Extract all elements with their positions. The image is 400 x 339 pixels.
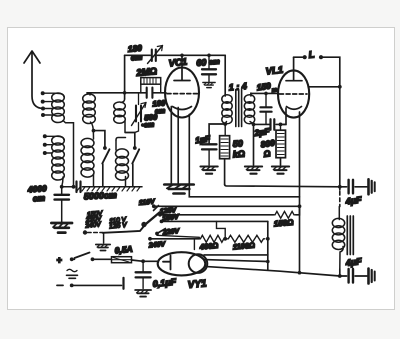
svg-text:cm: cm — [209, 57, 221, 67]
transformer T1 core — [236, 90, 242, 127]
node VL1 cathode — [279, 123, 283, 127]
node taps of coil L1a — [41, 91, 45, 117]
wire secondary top to VL1 grid — [251, 92, 279, 94]
svg-text:kΩ: kΩ — [232, 149, 245, 160]
node screen tap — [338, 85, 342, 89]
wire L to right rail — [323, 57, 340, 190]
svg-text:4μF: 4μF — [344, 195, 363, 207]
wire plate to transformer — [224, 55, 226, 96]
VL1 cathode — [287, 107, 302, 110]
resistor 800 Ohm — [276, 124, 286, 165]
symbol AC — [67, 269, 77, 272]
node 150 tap — [264, 92, 268, 96]
connector bar minus — [122, 278, 124, 289]
wire B+ rail — [225, 184, 340, 187]
choke T2 core — [347, 216, 353, 255]
fuse 0.5A — [112, 257, 132, 263]
wire primary bottom to 1uF — [209, 124, 225, 143]
node 125V — [158, 213, 162, 217]
svg-text:50: 50 — [232, 138, 243, 149]
capacitor 4000cm — [55, 187, 70, 222]
chassis bars upper — [369, 179, 375, 194]
VC1 legs — [171, 107, 178, 185]
switch mains — [75, 253, 90, 259]
switch S2 — [133, 146, 137, 150]
node L2 tap — [92, 129, 96, 133]
node heater rail bottom — [298, 271, 302, 275]
switch S1 — [103, 146, 107, 150]
terminal L left — [303, 55, 307, 59]
VL1 heater leg — [299, 112, 301, 273]
svg-text:60: 60 — [196, 57, 207, 68]
node on upper — [266, 260, 270, 264]
ground selector — [103, 233, 105, 243]
resistor 2MOhm grid leak — [141, 78, 161, 93]
wire row 110V — [154, 205, 300, 207]
terminal L right — [319, 55, 323, 59]
terminal minus — [57, 284, 63, 286]
tube VY1 envelope — [158, 252, 206, 275]
wire step to 400/1100 junction — [217, 221, 226, 238]
resistor 150 Ohm — [274, 211, 296, 218]
capacitor 0.1uF — [136, 261, 151, 288]
wire VY1 output lower — [205, 266, 340, 276]
VL1 cathode leg — [282, 108, 287, 124]
wire row 240V — [150, 238, 199, 240]
tube VC1 — [165, 68, 199, 118]
node 110V — [152, 204, 156, 208]
node VC1 anode on top wire — [180, 54, 184, 58]
wire dashed to output choke — [339, 192, 341, 207]
wire plus to fuse — [73, 258, 111, 260]
wire box right edge — [267, 221, 269, 269]
svg-text:L: L — [308, 49, 315, 61]
content groups appended below — [24, 51, 166, 233]
svg-text:2μF: 2μF — [253, 126, 271, 138]
capacitor 2uF — [271, 119, 275, 130]
chassis bars lower — [369, 269, 375, 284]
ground 60cm — [203, 83, 215, 88]
coil L1a antenna coupling upper — [52, 93, 74, 187]
VY1 cathode bar — [163, 256, 171, 270]
svg-text:•cm: •cm — [141, 120, 155, 130]
VC1 cathode — [173, 107, 192, 110]
capacitor 1uF — [202, 144, 217, 165]
node T1 secondary bottom — [252, 123, 256, 127]
ground VC1 cathode — [165, 185, 194, 194]
svg-text:VY1: VY1 — [187, 278, 207, 291]
antenna — [24, 51, 43, 109]
VC1 heater leg — [189, 115, 299, 197]
svg-text:cm: cm — [130, 53, 142, 63]
node 150V — [160, 220, 164, 224]
transformer T1 primary — [222, 95, 232, 124]
svg-text:VC1: VC1 — [168, 57, 188, 70]
wire box bottom — [204, 254, 268, 256]
capacitor 150 — [260, 93, 271, 124]
wire taps to coil L1b — [45, 136, 57, 153]
coil L2b tuning lower — [81, 138, 94, 186]
wire VY1 filament upper — [205, 260, 268, 262]
capacitor 5000cm — [62, 182, 142, 193]
wire tank top — [87, 92, 141, 94]
choke T2 coil — [332, 207, 344, 270]
wire L2 tap to switch S1 — [94, 131, 105, 147]
node antenna drop junction — [72, 185, 76, 189]
node 60cm tap — [207, 54, 211, 58]
svg-text:4μF: 4μF — [344, 256, 363, 268]
node 1100 right — [266, 237, 270, 241]
svg-text:150Ω: 150Ω — [273, 218, 294, 229]
svg-text:150: 150 — [256, 81, 272, 93]
node selector feed — [83, 230, 87, 234]
VC1 grid (dashed) — [167, 93, 198, 95]
svg-text:cm: cm — [32, 193, 45, 204]
wire fuse to VY1 — [132, 260, 159, 261]
wire VL1 anode to L terminal — [294, 56, 303, 58]
ground 0.1uF — [135, 290, 151, 297]
node 400/1100 junction — [223, 237, 227, 241]
tube VL1 — [278, 70, 309, 117]
svg-text:1100Ω: 1100Ω — [232, 241, 255, 252]
svg-text:1 : 4: 1 : 4 — [228, 81, 247, 93]
wire secondary bottom to ground — [253, 124, 255, 165]
wire VL1 screen tap — [309, 86, 340, 88]
VC1 anode — [174, 55, 190, 80]
ground 800 — [272, 167, 289, 174]
wire VY1 anode stub — [193, 239, 195, 250]
svg-text:240V: 240V — [148, 241, 167, 250]
node 240V — [148, 237, 152, 241]
capacitor 60cm — [202, 55, 216, 81]
transformer T1 secondary — [244, 93, 254, 124]
resistor 1100 Ohm — [227, 235, 264, 242]
capacitor 100cm grid — [141, 88, 166, 98]
node output bottom — [338, 274, 342, 278]
svg-text:240V: 240V — [84, 221, 102, 230]
wire 150 Ohm to heater rail — [296, 206, 300, 215]
wire vertical from 180cm corner — [124, 55, 126, 99]
coil L3b lower — [116, 138, 129, 187]
VY1 inner anode cylinder — [189, 254, 208, 273]
resistor 50k — [220, 124, 230, 184]
wire top plate line — [125, 54, 226, 56]
ground 1uF — [200, 167, 217, 174]
node B+ tap — [338, 185, 342, 189]
resistor 400 Ohm — [199, 235, 224, 242]
svg-text:VL1: VL1 — [265, 65, 283, 78]
chassis hatching — [77, 187, 140, 191]
wire row 150V — [162, 220, 268, 222]
node junction coil bottom — [60, 185, 64, 189]
tick 220V — [157, 229, 166, 234]
variable capacitor 500cm — [132, 93, 147, 133]
trimmer capacitor 180cm — [148, 46, 163, 64]
node T1 primary bottom — [223, 122, 227, 126]
wire into bottom node — [339, 269, 341, 276]
svg-text:Ω: Ω — [262, 148, 271, 159]
svg-text:0,1μF: 0,1μF — [152, 277, 177, 289]
ground secondary — [245, 167, 262, 174]
svg-text:0,5A: 0,5A — [114, 244, 133, 256]
coil L2a tuning upper — [83, 94, 96, 140]
node crossing tank wire — [123, 91, 127, 95]
tick 110V — [154, 206, 159, 211]
coil L1b antenna coupling lower — [52, 136, 65, 187]
ground below 4000cm — [51, 223, 72, 233]
VL1 grid dashed — [280, 93, 308, 95]
capacitor 4uF upper — [340, 180, 367, 194]
wire dashed selector feed — [88, 232, 103, 234]
node row110 right — [298, 204, 302, 208]
svg-text:400Ω: 400Ω — [198, 241, 218, 252]
svg-text:+: + — [57, 255, 63, 265]
VL1 anode — [286, 57, 302, 80]
node taps of coil L1b — [43, 134, 47, 155]
wire cathode row — [254, 123, 286, 125]
wire selector feed — [103, 226, 145, 233]
node pivot — [141, 222, 146, 227]
lever main selector — [144, 213, 160, 226]
coil L3a upper — [114, 99, 126, 133]
wire row 220V — [157, 235, 199, 237]
node 220V — [155, 232, 159, 236]
node 0.1uF tap — [141, 259, 145, 263]
svg-text:5000cm: 5000cm — [84, 190, 118, 202]
wire L3 tap to switch S2 — [126, 133, 135, 147]
wire taps to coil L1a — [43, 93, 56, 115]
svg-text:125 V: 125 V — [109, 222, 127, 231]
wire minus — [74, 284, 122, 286]
capacitor 4uF lower — [340, 269, 367, 283]
wire row 125V — [160, 214, 274, 216]
